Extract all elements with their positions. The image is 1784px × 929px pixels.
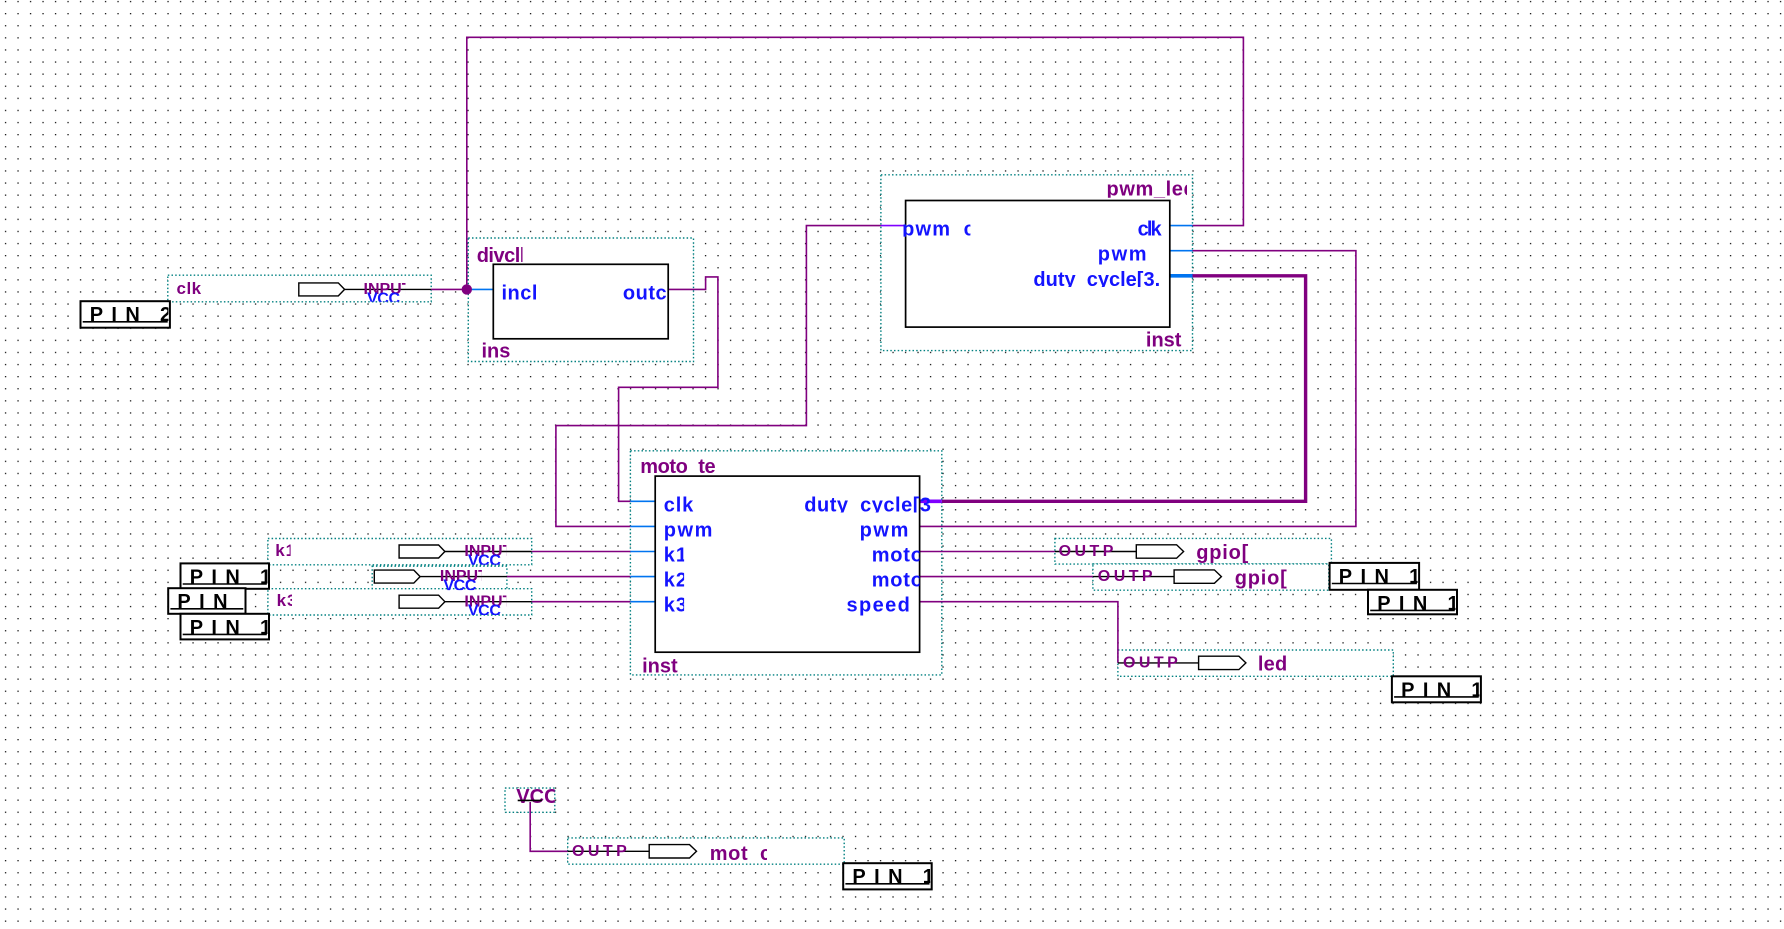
svg-text:pwm: pwm <box>860 520 910 542</box>
svg-text:clk: clk <box>177 279 202 298</box>
svg-text:PIN: PIN <box>177 591 236 613</box>
svg-text:pwm_led: pwm_led <box>1107 179 1197 201</box>
svg-text:clk: clk <box>664 494 695 516</box>
svg-text:inst: inst <box>1146 329 1182 351</box>
svg-text:gpio[: gpio[ <box>1235 567 1288 589</box>
svg-text:inst: inst <box>642 656 678 678</box>
svg-text:pwm: pwm <box>1098 244 1148 266</box>
svg-text:PIN: PIN <box>1377 593 1436 615</box>
svg-text:led: led <box>1258 653 1288 675</box>
svg-text:PIN: PIN <box>852 866 911 888</box>
svg-text:PIN: PIN <box>1339 566 1398 588</box>
svg-text:pwm: pwm <box>664 519 714 541</box>
svg-text:PIN: PIN <box>190 566 249 588</box>
svg-text:PIN: PIN <box>90 304 149 326</box>
svg-text:VCC: VCC <box>516 786 558 808</box>
svg-text:speed: speed <box>847 595 912 617</box>
svg-text:PIN: PIN <box>190 617 249 639</box>
svg-text:PIN: PIN <box>1401 679 1460 701</box>
svg-text:clk: clk <box>1138 219 1163 241</box>
svg-text:gpio[: gpio[ <box>1196 542 1249 564</box>
